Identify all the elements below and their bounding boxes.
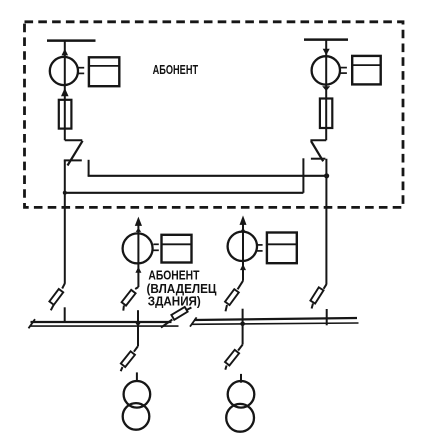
wire: transformer T1 lead bbox=[136, 372, 138, 381]
wire: left feeder riser down bbox=[64, 160, 66, 283]
wire: left stub to bus A bbox=[88, 160, 90, 176]
meter register box (right feeder) bbox=[352, 56, 381, 85]
node: supply line bar left bbox=[47, 39, 96, 42]
wire: bus A horizontal bbox=[88, 175, 327, 177]
fuse F2 (right feeder) bbox=[320, 99, 332, 129]
wire: left feeder drop bbox=[64, 41, 66, 141]
wire: right feeder riser down bbox=[325, 159, 327, 285]
connector ticks meter 2 bbox=[257, 244, 263, 246]
disconnector: left riser to bus (open blade) bbox=[62, 283, 65, 288]
fuse F1 (left feeder) bbox=[59, 100, 72, 129]
busbar left section bbox=[31, 321, 172, 323]
transformer T1 bbox=[124, 381, 151, 408]
breaker switch (left feeder) bbox=[65, 139, 83, 141]
wire: right riser bus stub bbox=[326, 309, 328, 325]
junction: branch 1 at bus bbox=[136, 321, 141, 326]
connector ticks meter 1 bbox=[153, 243, 158, 245]
meter CT circle (owner branch 1) bbox=[123, 233, 153, 263]
wire: right stub to bus B bbox=[302, 158, 304, 193]
node: supply line bar right bbox=[304, 38, 348, 41]
transformer T2 bbox=[228, 381, 255, 408]
svg-text:ЗДАНИЯ): ЗДАНИЯ) bbox=[148, 293, 201, 308]
meter CT circle (left feeder) bbox=[50, 57, 78, 85]
wire: bus B horizontal bbox=[65, 192, 304, 194]
connector ticks meter to register (left feeder) bbox=[78, 67, 84, 69]
wire: right feeder drop bbox=[325, 40, 327, 141]
meter CT circle (right feeder) bbox=[312, 56, 340, 84]
arrow: building-owner meter branch 2 to abonent bbox=[240, 215, 247, 225]
disconnector: transformer T2 branch (open blade) bbox=[238, 345, 243, 351]
arrow: small up arrow below owner meter 1 bbox=[135, 267, 141, 273]
arrow: small second up arrowhead (owner branch 1) bbox=[136, 228, 141, 232]
junction: bus A to right riser bbox=[324, 173, 329, 178]
wire: owner branch 1 bus stub / transformer drop bbox=[137, 310, 139, 346]
arrow: building-owner meter branch 1 to abonent bbox=[135, 217, 142, 226]
wire: transformer T2 lead bbox=[240, 374, 242, 383]
disconnector: owner branch 1 (open blade) bbox=[135, 287, 138, 289]
disconnector: owner branch 2 (open blade) bbox=[238, 281, 243, 290]
connector ticks meter to register (right feeder) bbox=[340, 67, 347, 69]
wire: owner branch 2 bus stub / transformer drop bbox=[242, 309, 244, 345]
meter register box (left feeder) bbox=[89, 57, 119, 86]
svg-text:АБОНЕНТ: АБОНЕНТ bbox=[153, 63, 199, 77]
junction: bus B to left riser bbox=[63, 191, 67, 195]
arrow: energy direction up (left feeder, below meter) bbox=[61, 88, 69, 96]
disconnector: transformer T1 branch (open blade) bbox=[134, 346, 138, 351]
arrow: small up arrow below owner meter 2 bbox=[240, 264, 246, 270]
arrow: energy direction up (left feeder, above meter) bbox=[62, 49, 69, 56]
junction: branch 2 at bus bbox=[240, 322, 245, 327]
meter register box (owner branch 1) bbox=[162, 235, 192, 263]
meter register box (owner branch 2) bbox=[267, 233, 297, 264]
busbar right section bbox=[194, 318, 357, 320]
wire: left riser bus stub bbox=[64, 307, 66, 323]
bus tie disconnector (open blade) bbox=[161, 320, 172, 328]
arrow: energy direction down (right feeder, above meter) bbox=[323, 49, 330, 56]
disconnector: right riser to bus (open blade) bbox=[324, 284, 327, 289]
arrow: energy direction down (right feeder, below meter) bbox=[322, 86, 330, 91]
meter CT circle (owner branch 2) bbox=[228, 232, 257, 261]
arrow: small second up arrowhead (owner branch 2) bbox=[240, 228, 245, 232]
breaker switch (right feeder) bbox=[310, 139, 326, 141]
dashed boundary box (abonent premises) bbox=[25, 22, 404, 208]
